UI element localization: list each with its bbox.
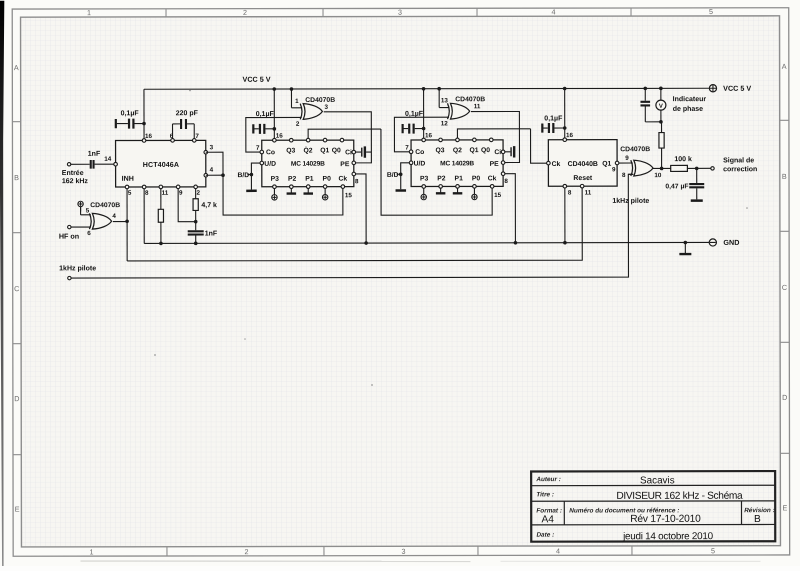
svg-text:8: 8 bbox=[504, 178, 508, 185]
svg-text:Ci: Ci bbox=[494, 149, 501, 156]
svg-text:Q0: Q0 bbox=[332, 147, 341, 154]
svg-text:Indicateur: Indicateur bbox=[673, 96, 707, 103]
svg-text:1nF: 1nF bbox=[205, 231, 218, 238]
svg-text:4: 4 bbox=[552, 7, 556, 16]
svg-text:MC 14029B: MC 14029B bbox=[440, 160, 474, 167]
svg-text:B: B bbox=[14, 173, 19, 182]
svg-text:Date :: Date : bbox=[536, 532, 554, 539]
svg-text:Rév 17-10-2010: Rév 17-10-2010 bbox=[630, 514, 701, 525]
svg-text:16: 16 bbox=[145, 133, 153, 140]
svg-text:220 pF: 220 pF bbox=[176, 110, 199, 117]
svg-text:DIVISEUR 162 kHz - Schéma: DIVISEUR 162 kHz - Schéma bbox=[616, 491, 743, 502]
svg-text:P2: P2 bbox=[437, 175, 446, 182]
svg-text:CD4040B: CD4040B bbox=[568, 161, 598, 168]
svg-text:Reset: Reset bbox=[573, 175, 592, 182]
svg-text:P1: P1 bbox=[305, 176, 314, 183]
svg-text:Signal de: Signal de bbox=[723, 157, 754, 164]
svg-text:B/D: B/D bbox=[387, 172, 399, 179]
svg-text:MC 14029B: MC 14029B bbox=[291, 161, 325, 168]
svg-text:C: C bbox=[14, 284, 19, 293]
svg-text:Ck: Ck bbox=[552, 161, 561, 168]
svg-text:D: D bbox=[14, 394, 19, 403]
svg-text:14: 14 bbox=[104, 156, 112, 163]
svg-text:B: B bbox=[754, 514, 761, 525]
svg-text:2: 2 bbox=[196, 190, 200, 197]
svg-text:Co: Co bbox=[266, 149, 275, 156]
svg-text:VCC 5 V: VCC 5 V bbox=[243, 75, 271, 84]
svg-text:11: 11 bbox=[585, 189, 592, 196]
svg-text:4: 4 bbox=[112, 213, 116, 220]
svg-text:4,7 k: 4,7 k bbox=[201, 202, 217, 209]
svg-text:2: 2 bbox=[296, 121, 300, 128]
svg-text:0,1µF: 0,1µF bbox=[121, 110, 140, 117]
svg-text:Q2: Q2 bbox=[453, 147, 462, 154]
svg-text:Auteur :: Auteur : bbox=[535, 476, 561, 483]
svg-text:P3: P3 bbox=[271, 176, 280, 183]
svg-text:3: 3 bbox=[398, 8, 402, 17]
svg-text:7: 7 bbox=[195, 133, 199, 140]
svg-text:5: 5 bbox=[711, 546, 715, 555]
svg-text:6: 6 bbox=[170, 133, 174, 140]
svg-text:VCC 5 V: VCC 5 V bbox=[723, 84, 751, 93]
svg-text:16: 16 bbox=[566, 132, 574, 139]
svg-text:P1: P1 bbox=[455, 175, 464, 182]
svg-text:Q1: Q1 bbox=[470, 147, 479, 154]
svg-text:16: 16 bbox=[425, 132, 433, 139]
svg-text:PE: PE bbox=[490, 161, 500, 168]
svg-text:3: 3 bbox=[401, 547, 405, 556]
svg-text:1: 1 bbox=[295, 98, 299, 105]
svg-text:P3: P3 bbox=[420, 175, 429, 182]
svg-text:8: 8 bbox=[355, 178, 359, 185]
svg-text:A: A bbox=[14, 63, 19, 72]
svg-text:de phase: de phase bbox=[673, 106, 703, 113]
svg-text:16: 16 bbox=[276, 133, 284, 140]
svg-text:8: 8 bbox=[622, 172, 626, 179]
svg-text:CD4070B: CD4070B bbox=[620, 146, 650, 153]
svg-text:Q3: Q3 bbox=[286, 147, 295, 154]
svg-text:9: 9 bbox=[612, 166, 616, 173]
svg-text:HF on: HF on bbox=[59, 232, 79, 241]
svg-text:Q0: Q0 bbox=[481, 147, 490, 154]
svg-text:6: 6 bbox=[87, 230, 91, 237]
svg-text:CD4070B: CD4070B bbox=[455, 96, 485, 103]
svg-text:7: 7 bbox=[405, 144, 409, 151]
svg-text:1: 1 bbox=[87, 8, 91, 17]
svg-text:8: 8 bbox=[145, 190, 149, 197]
svg-text:13: 13 bbox=[441, 97, 449, 104]
svg-text:CD4070B: CD4070B bbox=[90, 202, 120, 209]
svg-text:9: 9 bbox=[179, 190, 183, 197]
svg-text:Titre :: Titre : bbox=[536, 491, 554, 498]
svg-text:3: 3 bbox=[210, 144, 214, 151]
svg-text:Q1: Q1 bbox=[320, 147, 329, 154]
svg-text:10: 10 bbox=[654, 172, 662, 179]
svg-text:100 k: 100 k bbox=[674, 156, 692, 163]
svg-text:Ci: Ci bbox=[345, 149, 352, 156]
svg-text:correction: correction bbox=[723, 166, 757, 173]
svg-text:1kHz pilote: 1kHz pilote bbox=[612, 198, 649, 205]
svg-text:INH: INH bbox=[122, 175, 134, 183]
svg-text:7: 7 bbox=[256, 145, 260, 152]
svg-text:15: 15 bbox=[494, 192, 502, 199]
svg-text:CD4070B: CD4070B bbox=[305, 97, 335, 104]
svg-text:Q1: Q1 bbox=[602, 161, 611, 168]
svg-text:2: 2 bbox=[244, 547, 248, 556]
svg-text:Q3: Q3 bbox=[436, 147, 445, 154]
svg-text:P0: P0 bbox=[323, 176, 332, 183]
svg-text:8: 8 bbox=[568, 189, 572, 196]
svg-text:12: 12 bbox=[441, 120, 449, 127]
svg-text:3: 3 bbox=[324, 104, 328, 111]
svg-text:162 kHz: 162 kHz bbox=[62, 178, 89, 185]
svg-text:jeudi 14 octobre 2010: jeudi 14 octobre 2010 bbox=[622, 531, 714, 542]
svg-text:A: A bbox=[782, 62, 787, 71]
svg-text:4: 4 bbox=[556, 547, 560, 556]
svg-text:5: 5 bbox=[86, 208, 90, 215]
svg-text:0,1µF: 0,1µF bbox=[405, 111, 424, 118]
svg-text:P2: P2 bbox=[288, 176, 297, 183]
svg-text:GND: GND bbox=[723, 238, 739, 247]
svg-text:9: 9 bbox=[625, 155, 629, 162]
svg-text:11: 11 bbox=[474, 103, 481, 110]
svg-text:Co: Co bbox=[415, 149, 424, 156]
svg-text:D: D bbox=[782, 393, 787, 402]
svg-text:Ck: Ck bbox=[488, 175, 497, 182]
svg-text:B/D: B/D bbox=[238, 172, 250, 179]
svg-text:2: 2 bbox=[243, 8, 247, 17]
svg-text:1kHz pilote: 1kHz pilote bbox=[59, 265, 96, 272]
svg-text:PE: PE bbox=[340, 161, 350, 168]
svg-text:Ck: Ck bbox=[338, 176, 347, 183]
svg-text:Entrée: Entrée bbox=[62, 170, 84, 177]
svg-text:HCT4046A: HCT4046A bbox=[143, 161, 179, 169]
svg-text:15: 15 bbox=[345, 192, 353, 199]
svg-text:1: 1 bbox=[89, 547, 93, 556]
svg-text:Q2: Q2 bbox=[304, 147, 313, 154]
svg-text:Sacavis: Sacavis bbox=[640, 475, 675, 486]
svg-text:C: C bbox=[782, 283, 787, 292]
svg-text:5: 5 bbox=[709, 7, 713, 16]
svg-text:E: E bbox=[15, 505, 20, 514]
svg-text:1nF: 1nF bbox=[88, 151, 101, 158]
svg-text:E: E bbox=[782, 503, 787, 512]
svg-text:U/D: U/D bbox=[414, 160, 426, 167]
svg-text:A4: A4 bbox=[541, 514, 554, 525]
svg-text:11: 11 bbox=[162, 190, 169, 197]
svg-text:4: 4 bbox=[210, 167, 214, 174]
svg-text:B: B bbox=[782, 172, 787, 181]
svg-text:V: V bbox=[659, 104, 663, 110]
svg-text:5: 5 bbox=[128, 190, 132, 197]
svg-text:0,47 µF: 0,47 µF bbox=[665, 183, 688, 190]
svg-text:P0: P0 bbox=[472, 175, 481, 182]
svg-text:U/D: U/D bbox=[264, 161, 276, 168]
svg-text:0,1µF: 0,1µF bbox=[544, 115, 563, 122]
